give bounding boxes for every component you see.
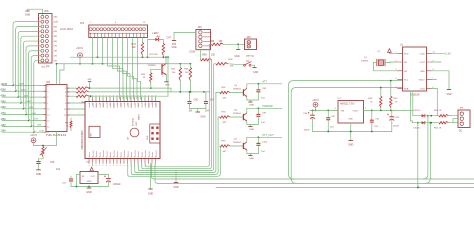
svg-text:NANO: NANO: [138, 114, 141, 120]
svg-text:GND: GND: [25, 14, 31, 17]
diode D52 5v: [412, 121, 439, 129]
svg-text:328P: 328P: [136, 121, 138, 126]
svg-text:15M: 15M: [34, 119, 38, 121]
svg-text:104: 104: [56, 168, 61, 171]
svg-text:20M: 20M: [54, 41, 58, 43]
wire +5V rail lower: [57, 63, 192, 65]
svg-text:1: 1: [90, 22, 91, 24]
wire +5V rail upper: [70, 56, 168, 58]
IC U1 SI5351A: [396, 44, 435, 97]
supply +5V/1 (LCD): [76, 47, 83, 65]
svg-text:C100: C100: [262, 142, 268, 144]
resistor R58: [216, 59, 244, 68]
svg-text:15M: 15M: [54, 51, 58, 53]
ground (near R48): [88, 79, 93, 89]
connector JP5 to LPF: [39, 9, 59, 68]
svg-text:I2C: I2C: [459, 131, 463, 133]
svg-text:80M: 80M: [54, 26, 58, 28]
svg-text:2: 2: [47, 97, 48, 99]
ground (C45): [36, 170, 42, 176]
svg-text:GND: GND: [348, 144, 354, 147]
svg-text:12M: 12M: [54, 55, 58, 57]
svg-text:4: 4: [47, 85, 48, 87]
svg-text:2N3904: 2N3904: [233, 113, 241, 115]
svg-text:5: 5: [65, 88, 66, 90]
svg-text:ATMEGA: ATMEGA: [131, 117, 134, 126]
wire LCD power pins: [93, 38, 103, 64]
resistor R59 150: [210, 41, 245, 46]
transistor Q5 2N3904: [233, 136, 261, 153]
svg-text:40M: 40M: [24, 95, 28, 97]
svg-text:12: 12: [47, 126, 49, 128]
capacitor C94 100uF: [303, 110, 315, 131]
wire gnd rail (7805): [71, 186, 108, 188]
svg-text:17M: 17M: [54, 46, 58, 48]
supply +5V/1 (ams1117): [312, 99, 319, 112]
svg-text:14: 14: [47, 115, 49, 117]
svg-text:GND: GND: [87, 181, 92, 183]
connector JP2 LCD 16X2: [60, 22, 148, 38]
svg-text:CLK1: CLK1: [420, 62, 426, 64]
svg-text:PTT_OUT: PTT_OUT: [262, 134, 274, 137]
svg-text:15K: 15K: [172, 72, 176, 74]
svg-text:GND: GND: [171, 47, 176, 49]
svg-text:15K: 15K: [185, 72, 189, 74]
ground (aux): [173, 171, 179, 189]
trimmer R49 contrast: [39, 145, 47, 162]
wire I2C riser to diode row 1: [423, 115, 429, 179]
node PREAMP: [261, 105, 282, 108]
svg-text:VDDO: VDDO: [419, 80, 425, 82]
svg-text:160M: 160M: [1, 82, 8, 86]
resistor R45 15K: [184, 64, 191, 92]
svg-text:9: 9: [65, 103, 66, 105]
node ATT: [261, 81, 282, 84]
ground (C89 C90): [190, 109, 206, 119]
transistor Q2 2N3906: [148, 57, 167, 81]
svg-text:1: 1: [47, 103, 48, 105]
IC IC7 AMS1117 3V3: [334, 98, 369, 140]
svg-text:COM: COM: [189, 50, 195, 53]
svg-text:R53 1K: R53 1K: [434, 110, 442, 112]
svg-text:GND: GND: [249, 104, 254, 106]
capacitor C90 104: [188, 91, 199, 113]
pin row bottom (nano): [89, 157, 157, 166]
svg-text:IC6: IC6: [46, 80, 51, 84]
svg-text:80M: 80M: [21, 89, 25, 91]
svg-text:100uF: 100uF: [393, 126, 400, 128]
transistor Q3 2N3904: [233, 83, 261, 100]
resistor R43 1K pullup: [390, 80, 399, 111]
resistor R55x 4K7: [220, 140, 244, 152]
svg-text:GND: GND: [234, 56, 239, 58]
resistor R45x 4K7: [220, 111, 244, 123]
svg-text:2X3P: 2X3P: [147, 135, 149, 140]
svg-text:+5V/1: +5V/1: [30, 134, 37, 137]
resistor R35x 4K7: [220, 87, 244, 99]
svg-text:15: 15: [47, 109, 49, 111]
resistor R47 (IC6 row): [70, 56, 169, 104]
svg-text:30M: 30M: [26, 101, 30, 103]
connector JP4 PTT IN: [245, 36, 257, 58]
capacitor C100 104: [250, 137, 268, 153]
wire bundle nano to drivers: [128, 44, 221, 176]
svg-text:JP4: JP4: [247, 36, 252, 39]
wire SDA row link: [411, 91, 413, 123]
svg-text:2N3906: 2N3906: [148, 65, 156, 67]
svg-text:16: 16: [143, 22, 145, 24]
svg-text:CLK0: CLK0: [420, 53, 426, 55]
capacitor C45 104: [36, 161, 60, 171]
ground (7805): [86, 187, 92, 194]
svg-text:10M: 10M: [39, 130, 43, 132]
svg-text:CLK0: CLK0: [445, 52, 452, 55]
net labels band rows: [1, 82, 44, 133]
svg-text:11: 11: [64, 115, 66, 117]
svg-text:VOUT: VOUT: [353, 110, 360, 112]
svg-text:8: 8: [115, 22, 116, 24]
svg-text:to LPF: to LPF: [42, 65, 50, 69]
svg-text:100: 100: [132, 46, 137, 49]
svg-text:GND: GND: [36, 173, 42, 176]
resistor R53 1K: [434, 110, 458, 117]
wire SCL row link: [412, 91, 414, 116]
supply +5V/1 (IC6): [30, 132, 56, 146]
resistor R54 1K: [434, 119, 458, 130]
svg-text:GND: GND: [173, 186, 179, 189]
svg-text:2: 2: [365, 108, 366, 110]
pin row top (nano): [89, 95, 157, 107]
module Arduino Nano (box): [81, 102, 160, 164]
svg-text:GND: GND: [200, 117, 205, 119]
svg-text:GND: GND: [253, 72, 258, 74]
ground (Q3 emitter): [247, 100, 255, 106]
wire fan JP5 to band rows: [2, 22, 44, 133]
svg-text:5: 5: [396, 87, 397, 89]
svg-text:ARDUINO NANO3: ARDUINO NANO3: [81, 130, 84, 150]
wire I2C SDA (nano to bus): [152, 164, 474, 180]
svg-text:15K: 15K: [211, 54, 216, 56]
resistor R44 15K: [171, 64, 182, 92]
resistor R44b 1K pullup: [368, 87, 382, 111]
svg-text:7: 7: [65, 96, 66, 98]
ground (JP3): [171, 32, 195, 49]
crystal (nano): [128, 128, 139, 140]
svg-text:GND: GND: [86, 191, 92, 194]
svg-text:3: 3: [335, 108, 336, 110]
ground (Q4 emitter): [247, 125, 255, 131]
wire analog rail: [89, 91, 210, 93]
wire 3V3 rail: [369, 110, 413, 112]
svg-text:100uF: 100uF: [304, 130, 311, 132]
transistor Q4 2N3904: [233, 107, 261, 124]
svg-text:17M: 17M: [32, 113, 36, 115]
label nano inner: [90, 103, 157, 157]
svg-text:R66: R66: [202, 54, 207, 56]
wire CLK1 stub: [432, 61, 442, 63]
IC IC6 74LS151N: [44, 80, 70, 137]
svg-text:VIN: VIN: [341, 110, 345, 112]
crystal Q1 27MHZ: [361, 51, 398, 71]
resistor R46 (IC6 row): [70, 91, 89, 94]
svg-text:+5V/1: +5V/1: [312, 99, 319, 102]
svg-text:GND: GND: [148, 193, 154, 196]
svg-text:80M: 80M: [1, 88, 6, 92]
svg-text:OUT: OUT: [91, 176, 96, 178]
svg-text:10M: 10M: [1, 129, 6, 133]
wire IC6 VCC stubs: [56, 63, 64, 85]
diode D53 5v: [413, 110, 439, 117]
resistor R69 1K: [141, 69, 152, 88]
svg-text:328: 328: [128, 137, 130, 140]
svg-text:4: 4: [396, 78, 397, 80]
svg-text:11: 11: [47, 132, 49, 134]
capacitor C93 100uF: [387, 110, 399, 131]
wire LCD data staircase: [108, 38, 141, 100]
svg-text:LCD 16X2: LCD 16X2: [60, 27, 73, 31]
svg-text:R70 150: R70 150: [150, 54, 159, 56]
svg-text:GND: GND: [249, 158, 254, 160]
svg-text:40M: 40M: [54, 31, 58, 33]
resistor R66 15K: [200, 50, 215, 61]
svg-text:20M: 20M: [29, 107, 33, 109]
wire 5V feed: [310, 110, 338, 112]
ground (Q5 emitter): [247, 154, 255, 160]
resistor R13 100: [132, 38, 144, 58]
svg-text:SI5351A: SI5351A: [410, 93, 420, 96]
svg-text:2PS: 2PS: [172, 44, 177, 46]
svg-text:27MHZ: 27MHZ: [361, 61, 369, 63]
svg-text:15M: 15M: [1, 117, 6, 121]
node CLK0: [432, 52, 452, 55]
svg-text:20M: 20M: [1, 105, 6, 109]
svg-text:12M: 12M: [1, 123, 6, 127]
supply +5V arrow (7805): [90, 164, 94, 172]
svg-text:GND: GND: [446, 94, 451, 96]
svg-text:30M: 30M: [1, 99, 6, 103]
ground (U1): [432, 71, 452, 96]
svg-text:USB: USB: [91, 133, 93, 138]
svg-text:C45: C45: [50, 161, 55, 164]
svg-text:17M: 17M: [1, 111, 6, 115]
wire gnd riser (i2c): [417, 122, 421, 189]
svg-text:6: 6: [65, 92, 66, 94]
wire SCL riser (si5351): [289, 81, 403, 179]
svg-text:40M: 40M: [1, 94, 6, 98]
ground (LED driver): [164, 82, 170, 87]
node PTT_OUT: [261, 134, 282, 137]
svg-text:C90: C90: [194, 100, 199, 102]
svg-text:13: 13: [47, 121, 49, 123]
svg-text:R54 1K: R54 1K: [434, 127, 442, 129]
svg-text:10: 10: [64, 109, 66, 111]
resistor R51 10K: [65, 118, 72, 131]
capacitor C99 104: [250, 108, 266, 124]
svg-text:D52 5v: D52 5v: [413, 127, 421, 129]
svg-text:SDA: SDA: [404, 87, 409, 90]
svg-text:JP3: JP3: [198, 26, 203, 29]
supply +5V (U1 vdd): [388, 49, 398, 54]
capacitor C30 104: [326, 110, 335, 131]
svg-text:30M: 30M: [54, 36, 58, 38]
ground (ams1117): [348, 141, 354, 147]
wire bus gnd bottom: [216, 187, 474, 189]
connector JP6 I2C: [458, 108, 470, 133]
capacitor C46 (7805 in): [62, 176, 73, 187]
svg-text:JP5: JP5: [44, 9, 49, 13]
svg-text:2N3904: 2N3904: [233, 88, 241, 90]
LED LED3: [148, 32, 172, 57]
ICSP header (nano): [150, 124, 160, 143]
wire SDA riser (si5351): [291, 88, 402, 184]
svg-text:GND: GND: [165, 85, 170, 87]
svg-text:GND: GND: [249, 129, 254, 131]
svg-text:AMS1117 3V3: AMS1117 3V3: [340, 103, 355, 106]
wire 7805 input: [77, 175, 81, 187]
USB Micro-B (nano): [89, 126, 100, 137]
capacitor C91 104: [370, 110, 380, 131]
wire IC6 outputs: [70, 103, 86, 115]
svg-text:2N3904: 2N3904: [233, 142, 241, 144]
switch S1: [244, 61, 255, 66]
ground (S1): [252, 65, 258, 74]
svg-text:10M: 10M: [54, 60, 58, 62]
capacitor C47 100uF (7805 out): [98, 175, 121, 187]
svg-text:LED3: LED3: [153, 32, 160, 35]
svg-text:15K: 15K: [230, 66, 234, 68]
resistor R45 (IC6 row): [70, 87, 172, 92]
svg-text:CLK2: CLK2: [420, 88, 426, 90]
svg-text:CAT: CAT: [166, 37, 171, 40]
svg-text:160M: 160M: [19, 84, 25, 86]
connector JP3 COM: [189, 26, 210, 53]
svg-text:3: 3: [47, 91, 48, 93]
wire I2C SCL (nano to bus): [155, 164, 474, 184]
IC IC8 7805 regulator: [80, 172, 98, 184]
svg-text:C89: C89: [210, 100, 215, 102]
svg-text:PTT IN: PTT IN: [246, 56, 254, 58]
svg-text:1000uF: 1000uF: [113, 184, 121, 186]
wire VDDO stub: [432, 79, 437, 81]
ground GND (top-left): [25, 9, 43, 16]
ground (PTT in): [234, 44, 240, 58]
svg-text:D53 5v: D53 5v: [413, 110, 421, 112]
capacitor C98 104: [250, 84, 266, 100]
svg-text:+5V/1: +5V/1: [76, 47, 83, 50]
svg-text:160M: 160M: [54, 21, 59, 23]
svg-text:VDD: VDD: [404, 53, 409, 55]
svg-text:GND: GND: [348, 119, 353, 121]
svg-text:GND: GND: [88, 79, 93, 81]
svg-text:ATT: ATT: [262, 81, 267, 84]
wire CLK2 down: [432, 88, 438, 115]
resistor R70 150: [150, 44, 165, 59]
capacitor C89 104: [204, 92, 215, 113]
wire gnd rail (3v3): [313, 131, 392, 133]
svg-text:PREAMP: PREAMP: [262, 105, 273, 108]
svg-text:12M: 12M: [37, 125, 41, 127]
ground (nano pin): [148, 164, 154, 196]
wire I2C riser to diode row 2: [425, 122, 431, 184]
svg-text:GND: GND: [420, 71, 425, 73]
svg-text:JP2: JP2: [80, 22, 85, 25]
